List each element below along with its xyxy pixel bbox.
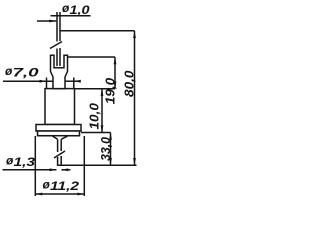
svg-text:1,3: 1,3 bbox=[14, 155, 36, 169]
svg-text:7,0: 7,0 bbox=[13, 66, 39, 80]
svg-text:1,0: 1,0 bbox=[70, 3, 90, 17]
svg-text:33,0: 33,0 bbox=[98, 136, 113, 161]
svg-text:10,0: 10,0 bbox=[87, 102, 102, 129]
svg-text:19,0: 19,0 bbox=[102, 77, 117, 104]
svg-text:11,2: 11,2 bbox=[50, 179, 79, 193]
svg-text:80,0: 80,0 bbox=[121, 70, 136, 97]
